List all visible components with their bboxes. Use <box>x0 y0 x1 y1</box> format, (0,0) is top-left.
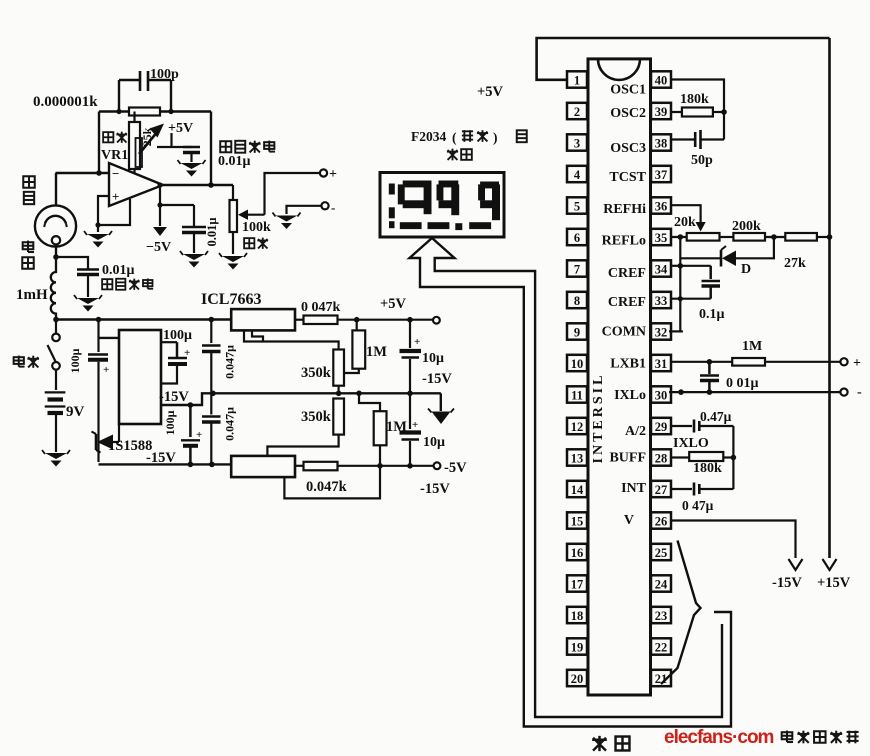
svg-text:18: 18 <box>571 609 584 623</box>
pin box 13 <box>567 449 587 465</box>
wire box to cap2 <box>161 341 177 343</box>
wire pin27 to 0.47u <box>672 488 693 490</box>
svg-text:+: + <box>184 347 190 359</box>
junction 180k loop <box>731 455 737 461</box>
svg-text:0.1μ: 0.1μ <box>699 307 725 322</box>
resistor R feedback 0.000001k <box>129 108 160 116</box>
wire pin39 to 180k <box>671 111 682 113</box>
wire VR1 bottom stub <box>133 169 135 174</box>
wire upper box to 350k upper <box>244 330 339 349</box>
diode D <box>722 251 736 267</box>
wire 100p right leg <box>170 80 172 112</box>
wire feedback down to output <box>210 112 212 186</box>
junction 200k-27k diode tap <box>771 234 777 240</box>
wire pin26 to -15V arrow <box>672 521 796 559</box>
wire 27k to +15V line <box>817 236 830 238</box>
svg-text:OSC2: OSC2 <box>610 106 646 121</box>
wire pin1 to top rail <box>537 38 830 80</box>
wire lower box loop 0.047k <box>284 445 380 498</box>
block arrow display pointer inner <box>432 238 722 717</box>
svg-text:40: 40 <box>655 73 668 87</box>
svg-text:0.047μ: 0.047μ <box>223 345 237 379</box>
wire to minus terminal <box>287 206 322 214</box>
wire cathode down <box>55 173 57 206</box>
wire lower box to 0.047k lower <box>295 465 304 467</box>
wire VR1 top stub <box>133 112 135 123</box>
svg-text:REFHi: REFHi <box>603 202 646 217</box>
wire feedback left <box>99 110 129 112</box>
label yangji (anode) <box>23 241 34 252</box>
junction 0.01u top <box>707 359 713 365</box>
svg-text:VR1: VR1 <box>101 148 128 163</box>
svg-text:(: ( <box>452 130 457 145</box>
wire to 100k pot <box>232 185 234 200</box>
svg-text:200k: 200k <box>732 219 761 234</box>
wire cap1 bottom down to -15V rail <box>97 362 99 462</box>
battery BT1 9V <box>45 391 66 393</box>
label deng (etc) <box>517 130 527 142</box>
wire 100p top left <box>119 79 140 81</box>
svg-text:0.047μ: 0.047μ <box>223 407 237 441</box>
label weitiao for 100k <box>244 238 254 248</box>
svg-text:6: 6 <box>574 231 580 245</box>
svg-text:37: 37 <box>655 168 668 182</box>
wire 27k tap to diode <box>736 237 774 258</box>
svg-text:−: − <box>112 166 119 181</box>
label xianshi (display) top <box>447 149 458 161</box>
wire 1M upper bottom <box>344 369 359 373</box>
pin box 18 <box>567 607 587 623</box>
IC ICL7663 lower box <box>231 456 295 477</box>
wire pin28 to 180k <box>672 456 690 458</box>
potentiometer 20k body <box>687 233 720 241</box>
potentiometer 100k body <box>230 200 238 232</box>
junction pin33 crossing <box>678 296 683 301</box>
svg-text:1M: 1M <box>366 344 387 360</box>
svg-text:24: 24 <box>655 577 668 591</box>
capacitor 10u lower <box>400 430 422 434</box>
label dianyuan (power) <box>14 356 25 367</box>
arrow +15V <box>823 559 837 570</box>
resistor 350k lower <box>333 399 344 435</box>
wire to plus terminal <box>265 173 321 215</box>
pin box 27 <box>651 481 671 497</box>
pin box 14 <box>567 481 587 497</box>
wire 100k pot bottom <box>232 232 234 254</box>
ground at op-amp + input <box>87 234 109 240</box>
terminal plus circle <box>320 169 327 176</box>
wire +15V right vertical <box>828 38 831 558</box>
capacitor 0.01u below op-amp <box>193 205 195 227</box>
wire 10u lower top <box>409 393 411 429</box>
wire 1M lower top <box>359 393 380 411</box>
svg-text:9V: 9V <box>66 404 85 420</box>
wire pin31 to 1M <box>672 361 733 363</box>
terminal +5V circle <box>433 317 440 324</box>
display decimal point <box>455 223 462 230</box>
svg-text:1mH: 1mH <box>16 287 48 303</box>
svg-text:-5V: -5V <box>444 460 467 476</box>
potentiometer 100k wiper arrow <box>238 210 248 220</box>
wire pin32 stub <box>669 330 683 332</box>
svg-text:INTERSIL: INTERSIL <box>591 373 606 464</box>
svg-text:0.01μ: 0.01μ <box>205 218 219 247</box>
junction noninverting ground node <box>95 222 100 227</box>
inductor L1 1mH <box>51 257 56 320</box>
svg-text:0.01μ: 0.01μ <box>218 154 251 169</box>
svg-text:9: 9 <box>574 325 580 339</box>
wire feedback right <box>160 110 211 112</box>
wire rail to switch <box>55 320 57 334</box>
junction 0.01u bottom <box>707 389 713 395</box>
photo tube anode contact <box>52 236 60 244</box>
svg-text:25k: 25k <box>140 127 154 146</box>
svg-text:0 01μ: 0 01μ <box>726 376 759 391</box>
watermark dianzi fashaoyou <box>782 731 793 742</box>
wire box bottom corner down <box>118 424 120 442</box>
wire switch to battery <box>55 370 57 390</box>
wire -5V branch <box>159 185 161 226</box>
svg-text:CREF: CREF <box>608 266 646 281</box>
junction rail cap1 <box>96 317 102 323</box>
svg-text:27k: 27k <box>784 256 806 271</box>
pin box 6 <box>567 229 587 245</box>
svg-text:27: 27 <box>655 483 668 497</box>
svg-text:IXLO: IXLO <box>673 436 709 451</box>
wire 200k to 27k <box>765 236 785 238</box>
resistor 0.047k upper <box>304 316 338 325</box>
wire inverting input <box>56 172 110 174</box>
label dongzhi (toshiba) <box>462 130 473 142</box>
resistor 180k pin28 <box>689 452 723 461</box>
wire 350k upper bottom <box>338 386 340 394</box>
junction anode node <box>53 254 59 260</box>
svg-text:-15V: -15V <box>422 371 452 387</box>
svg-text:OSC1: OSC1 <box>610 83 646 98</box>
svg-text:LXB1: LXB1 <box>610 357 646 372</box>
display digit 9 first <box>403 181 432 188</box>
capacitor C 100p plate right <box>147 71 150 91</box>
pin box 17 <box>567 575 587 591</box>
junction output -5V branch <box>157 182 162 187</box>
svg-text:−5V: −5V <box>146 240 171 255</box>
wire loop vertical pins 29-27 <box>732 426 734 489</box>
svg-text:5: 5 <box>574 199 580 213</box>
svg-text:0.47μ: 0.47μ <box>700 409 732 424</box>
svg-text:34: 34 <box>655 262 668 276</box>
svg-text:1M: 1M <box>742 339 762 354</box>
junction 100p right <box>168 109 173 114</box>
junction cap3 top <box>188 402 194 408</box>
block arrow display pointer outer <box>410 238 732 727</box>
pin box 38 <box>651 134 671 150</box>
capacitor 0.01u ceramic at anode <box>77 268 99 271</box>
wire +5V to ceramic cap <box>157 146 192 148</box>
wire pin29 to 0.47u <box>672 425 693 427</box>
junction output feedback <box>208 182 214 188</box>
trimmer VR1 body <box>129 122 140 169</box>
svg-text:22: 22 <box>655 640 668 654</box>
junction 0.047u2 bottom <box>209 462 215 468</box>
pin box 24 <box>651 575 671 591</box>
svg-text:0.01μ: 0.01μ <box>102 263 135 278</box>
label weitiao (trim) <box>103 132 113 142</box>
svg-text:-: - <box>331 200 335 215</box>
resistor 27k <box>785 233 817 241</box>
wire 0.047u column bottom <box>210 424 212 465</box>
switch S1 lever <box>48 345 56 362</box>
pin box 4 <box>567 166 587 182</box>
wire -15V bottom rail <box>99 463 232 465</box>
svg-text:+: + <box>329 167 337 182</box>
junction 180k osc <box>721 109 727 115</box>
wire pin38 to 50p <box>671 138 695 140</box>
pin box 16 <box>567 544 587 560</box>
svg-text:100μ: 100μ <box>68 348 82 373</box>
svg-text:elecfans·com: elecfans·com <box>664 727 774 748</box>
svg-text:23: 23 <box>655 609 668 623</box>
svg-text:36: 36 <box>655 199 668 213</box>
arrow -15V right of power <box>432 412 451 425</box>
switch S1 top contact <box>52 334 60 342</box>
ground at +5V ceramic cap <box>181 163 203 169</box>
wire 180k to loop <box>713 111 724 113</box>
svg-text:11: 11 <box>571 388 583 402</box>
wire +5V rail <box>338 319 433 321</box>
junction rail switch <box>53 317 59 323</box>
ground battery <box>45 453 67 459</box>
display digit 1 segments <box>389 184 395 195</box>
svg-text:35: 35 <box>655 231 668 245</box>
capacitor 50p <box>694 132 697 147</box>
pin box 11 <box>567 386 587 402</box>
capacitor 0.1u <box>709 266 712 279</box>
svg-text:2: 2 <box>574 105 580 119</box>
wire 50p to loop <box>701 138 725 140</box>
junction 1M lower bottom <box>377 463 383 469</box>
terminal -5V circle <box>434 462 441 469</box>
svg-text:39: 39 <box>655 105 668 119</box>
pin box 33 <box>651 292 671 308</box>
svg-text:+: + <box>412 419 418 431</box>
wire 0.47u to loop right <box>699 425 733 427</box>
svg-text:180k: 180k <box>680 92 709 107</box>
pin box 8 <box>567 292 587 308</box>
svg-text:32: 32 <box>655 325 668 339</box>
svg-text:100μ: 100μ <box>163 328 192 343</box>
svg-text:8: 8 <box>574 294 580 308</box>
wire pin36 to 20k wiper <box>671 205 701 224</box>
terminal plus output circle <box>840 358 847 365</box>
junction 10u mid <box>407 391 413 397</box>
wire upper box tab2 <box>252 330 263 341</box>
wire pin35 to 20k <box>670 236 687 238</box>
capacitor 100u cap2 <box>176 342 179 358</box>
photo tube envelope <box>35 205 76 246</box>
svg-text:31: 31 <box>655 357 668 371</box>
svg-text:19: 19 <box>571 640 584 654</box>
pin box 15 <box>567 512 587 528</box>
resistor 1M output <box>732 358 765 366</box>
wire 10u upper top <box>409 320 411 348</box>
brace pins 21-25 <box>661 541 701 685</box>
svg-text:CREF: CREF <box>608 295 646 310</box>
wire 0.47u pin27 to loop <box>699 488 733 490</box>
wire 180k to loop <box>723 456 733 458</box>
label taoci dianrong anode <box>102 279 112 289</box>
svg-text:OSC3: OSC3 <box>610 141 646 156</box>
display digit 9 second <box>439 181 459 188</box>
svg-text:17: 17 <box>571 577 584 591</box>
pin box 3 <box>567 134 587 150</box>
svg-text:BUFF: BUFF <box>609 451 646 466</box>
svg-text:+5V: +5V <box>380 296 407 312</box>
svg-text:-15V: -15V <box>146 450 176 466</box>
display digit 9 third <box>480 182 499 189</box>
wire top rail 9V <box>56 318 231 320</box>
junction rail 0.047u column <box>209 317 215 323</box>
junction cap3 bottom <box>188 462 194 468</box>
resistor 180k oscillator <box>682 108 713 117</box>
wire 100p top right <box>148 79 171 81</box>
wire tap into regulator box VIN <box>99 337 120 339</box>
svg-text:+5V: +5V <box>477 84 504 100</box>
junction pin35 node <box>678 234 684 240</box>
pin box 31 <box>651 355 671 371</box>
svg-text:100μ: 100μ <box>163 410 177 435</box>
svg-text:38: 38 <box>655 136 668 150</box>
trimmer VR1 wiper arrow <box>139 131 158 154</box>
junction 1M upper top <box>354 317 360 323</box>
junction 100p left <box>116 109 121 114</box>
pin box 7 <box>567 260 587 276</box>
svg-text:26: 26 <box>655 514 668 528</box>
pin box 20 <box>567 670 587 686</box>
capacitor 100u cap3 <box>189 405 192 437</box>
svg-text:F2034: F2034 <box>411 129 446 144</box>
svg-text:+: + <box>853 356 861 371</box>
wire pin30 to minus terminal <box>669 391 841 393</box>
capacitor 10u upper <box>400 349 422 353</box>
pin box 37 <box>651 166 671 182</box>
capacitor ceramic 0.01u at +5V <box>183 146 200 149</box>
wire pin40 loop <box>671 80 724 140</box>
svg-text:4: 4 <box>574 168 581 182</box>
wire pin33 to 0.1u bottom <box>672 298 711 300</box>
svg-text:V: V <box>624 513 634 528</box>
svg-text:+: + <box>196 429 202 441</box>
wire op-amp output <box>163 184 233 186</box>
ground at minus terminal <box>276 216 298 222</box>
wire pin34 to 0.1u top <box>680 265 710 267</box>
terminal minus circle <box>321 202 328 209</box>
wire diode to box corner <box>113 441 119 443</box>
wire feedback down to inverting input <box>98 112 100 174</box>
svg-text:0 047k: 0 047k <box>301 300 341 315</box>
wire battery to ground <box>55 415 57 452</box>
svg-text:16: 16 <box>571 546 584 560</box>
capacitor C 100p plate left <box>139 71 142 91</box>
wire 20k to 200k <box>720 236 734 238</box>
wire to 0.01u cap below opamp <box>160 204 194 206</box>
wire noninverting to ground <box>98 196 109 232</box>
wire cap1 top <box>97 320 99 353</box>
capacitor 0.047u lower <box>202 415 221 417</box>
pin box 9 <box>567 323 587 339</box>
capacitor 0.47u pin27 <box>693 483 696 496</box>
svg-text:+15V: +15V <box>817 575 851 591</box>
junction pin34 node <box>678 263 684 269</box>
resistor 200k <box>733 233 765 241</box>
photo tube cathode electrode <box>45 216 66 224</box>
svg-text:): ) <box>493 130 498 145</box>
wire diode to pin35 vertical <box>680 257 720 259</box>
wire 1M to plus terminal <box>765 361 841 363</box>
label taoci dianrong (ceramic cap) <box>220 141 231 152</box>
20k pot wiper arrow <box>696 222 706 232</box>
wire pin35 vertical down <box>679 237 681 331</box>
switch S1 bottom contact <box>52 362 60 370</box>
svg-text:28: 28 <box>655 451 668 465</box>
wire anode down <box>55 245 57 258</box>
pin box 26 <box>651 512 671 528</box>
svg-text:-15V: -15V <box>420 481 450 497</box>
wire +5V down <box>170 133 172 147</box>
svg-text:INT: INT <box>621 481 647 496</box>
svg-text:350k: 350k <box>301 365 332 381</box>
svg-text:15: 15 <box>571 514 584 528</box>
svg-text:50p: 50p <box>691 153 713 168</box>
pin box 21 <box>651 670 671 686</box>
capacitor 0.01u output <box>708 362 711 374</box>
pin box 30 <box>651 386 671 402</box>
diode D 1S1588 zener <box>95 434 98 450</box>
svg-text:ICL7663: ICL7663 <box>201 291 261 308</box>
svg-text:14: 14 <box>571 483 584 497</box>
svg-text:0.047k: 0.047k <box>306 479 348 495</box>
pin box 39 <box>651 103 671 119</box>
wire -5V rail <box>338 465 434 467</box>
wire -15V mid rail <box>161 393 441 405</box>
svg-text:7: 7 <box>574 262 580 276</box>
junction 10u upper top <box>407 317 413 323</box>
svg-text:25: 25 <box>655 546 668 560</box>
svg-text:IXLo: IXLo <box>614 388 646 403</box>
svg-text:20k: 20k <box>674 215 696 230</box>
svg-text:29: 29 <box>655 420 668 434</box>
resistor 1M upper <box>352 330 365 368</box>
wire 1M upper top <box>356 320 358 331</box>
label xianshi (display) bottom <box>592 736 607 751</box>
svg-text:180k: 180k <box>693 461 722 476</box>
junction 1M lower top <box>356 391 362 397</box>
trimmer VR1 inner <box>136 138 143 167</box>
pin box 34 <box>651 260 671 276</box>
resistor 0.047k lower rail <box>304 462 338 471</box>
capacitor 0.47u pin29 <box>693 420 696 433</box>
display module box <box>380 173 504 238</box>
pin box 23 <box>651 607 671 623</box>
IC U2 notch <box>598 59 640 80</box>
pin box 1 <box>567 71 587 87</box>
svg-text:+: + <box>103 364 109 376</box>
svg-text:-: - <box>857 385 862 400</box>
ground below anode ceramic cap <box>77 298 99 304</box>
svg-text:A/2: A/2 <box>625 424 646 439</box>
svg-text:13: 13 <box>571 451 584 465</box>
svg-text:+: + <box>414 336 420 348</box>
wire 100p left leg <box>118 80 120 112</box>
